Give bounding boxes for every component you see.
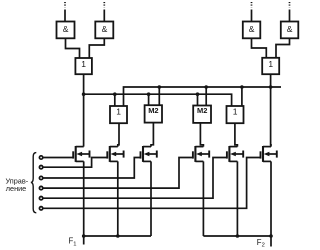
node: upper bus at OR2 output [269, 85, 273, 89]
node: upper bus at M2A input [158, 85, 162, 89]
node: F2 bus right [269, 234, 273, 238]
node: lower bus at M2A input [147, 92, 151, 96]
wire M2B output to VT4 drain [200, 123, 203, 147]
svg-text:ление: ление [6, 184, 26, 193]
wire VT2 source down to F1 bus [117, 161, 119, 236]
svg-text:1: 1 [233, 107, 238, 117]
svg-text:&: & [63, 24, 69, 34]
svg-text:&: & [287, 24, 293, 34]
control terminal circle 6 [39, 207, 42, 210]
transistor VT6 [261, 146, 277, 162]
wire M2A output to VT3 drain [151, 123, 153, 147]
wire DD2.1 output to OR2 left input [252, 38, 267, 58]
wire control line 6 to VT6 gate [43, 158, 261, 209]
node: upper bus at box1B input [240, 85, 244, 89]
node: F1 bus left [82, 234, 86, 238]
transistor VT1 [73, 146, 89, 162]
wire dotted input to DD1.2 [103, 2, 105, 22]
OR gate OR1 [75, 58, 92, 74]
box M2A [145, 105, 162, 122]
node: lower bus at OR1 output [82, 92, 86, 96]
control terminal circle 1 [39, 156, 42, 159]
wire control line 3 to VT3 gate [43, 158, 141, 179]
transistor VT2 [107, 146, 123, 162]
wire OR1 output down to VT1 drain [83, 74, 85, 146]
brace for control group [31, 153, 36, 213]
AND gate DD2.1 [243, 22, 260, 39]
svg-text:М2: М2 [197, 106, 207, 115]
AND gate DD2.2 [281, 22, 299, 39]
wire lower bus [84, 94, 232, 106]
wire lower bus to box1A left input [114, 94, 116, 106]
svg-text:1: 1 [116, 107, 121, 117]
wire control line 4 to VT4 gate [43, 158, 193, 189]
wire lower bus to M2A left input [148, 94, 150, 105]
wire control line 2 to VT2 gate [43, 158, 107, 168]
transistor VT5 [227, 146, 243, 162]
wire OR2 output down to VT6 drain [270, 74, 272, 146]
wire DD1.2 output to OR1 right input [89, 38, 104, 58]
wire control line 5 to VT5 gate [43, 158, 227, 199]
node: upper bus at M2B input [204, 85, 208, 89]
transistor VT4 [193, 146, 209, 162]
wire F1 bus [84, 235, 151, 237]
OR gate OR2 [262, 58, 279, 74]
wire VT1 source down to F1 bus [83, 161, 85, 236]
AND gate DD1.2 [95, 22, 113, 39]
wire F1 output lead [83, 236, 85, 245]
box 1B [227, 106, 244, 123]
control terminal circle 5 [39, 197, 42, 200]
svg-text:М2: М2 [148, 106, 158, 115]
AND gate DD1.1 [57, 22, 75, 39]
control terminal circle 2 [39, 166, 42, 169]
wire VT5 source down to F2 bus [236, 161, 238, 236]
wire DD2.2 output to OR2 right input [276, 38, 290, 58]
wire dotted input to DD1.1 [64, 2, 66, 22]
control terminal circle 3 [39, 176, 42, 179]
wire VT6 source down to F2 bus [270, 161, 272, 236]
svg-text:1: 1 [268, 59, 273, 69]
node: F2 bus middle [236, 234, 240, 238]
wire box1B output to VT5 drain [235, 123, 238, 146]
wire dotted input to DD2.2 [289, 2, 291, 22]
svg-text:&: & [249, 24, 255, 34]
svg-text:1: 1 [81, 59, 86, 69]
wire lower bus to M2B left input [197, 94, 199, 105]
box 1A [110, 106, 127, 123]
wire upper bus to M2A right input [158, 87, 160, 105]
wire VT4 source down to F2 bus [202, 161, 204, 236]
node: lower bus at box1A input [113, 92, 117, 96]
wire box1A output to VT2 drain [118, 123, 119, 146]
wire DD1.1 output to OR1 left input [66, 38, 80, 58]
node: lower bus at M2B input [196, 92, 200, 96]
transistor VT3 [141, 146, 157, 162]
box M2B [193, 106, 211, 123]
wire VT3 source down to F1 bus [150, 161, 152, 236]
svg-text:&: & [102, 24, 108, 34]
control terminal circle 4 [39, 186, 42, 189]
wire control line 1 to VT1 gate [43, 157, 73, 159]
wire upper bus [124, 87, 282, 106]
wire F2 output lead [270, 236, 272, 247]
wire dotted input to DD2.1 [251, 2, 253, 22]
wire upper bus to box1B right input [241, 87, 243, 106]
wire F2 bus [203, 235, 271, 237]
node: F1 bus middle [116, 234, 120, 238]
wire upper bus to M2B right input [205, 87, 207, 106]
